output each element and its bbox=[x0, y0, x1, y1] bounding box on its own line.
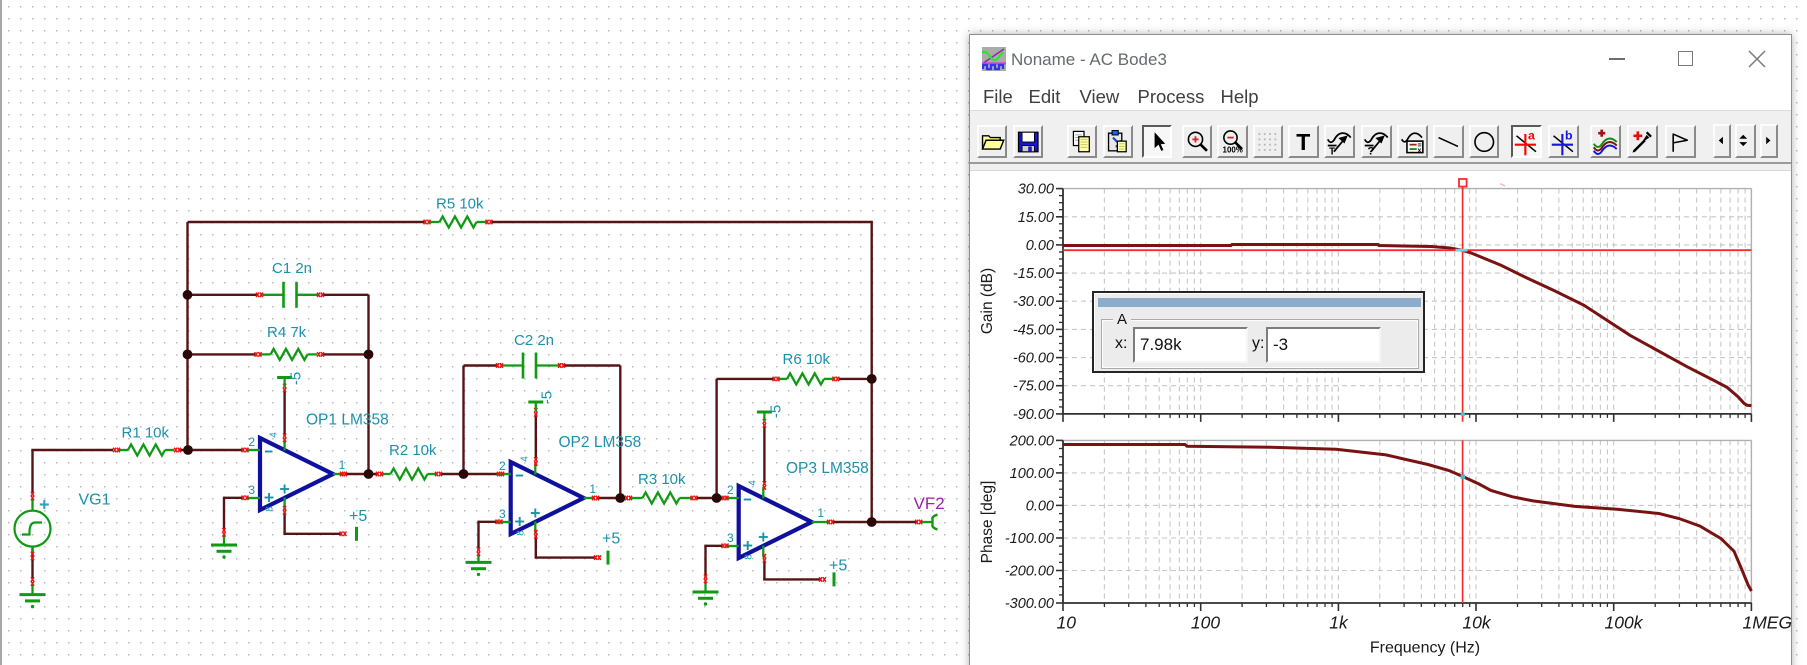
OP3 terminal crosses (inputs/output/supplies) bbox=[722, 496, 725, 501]
svg-text:-15.00: -15.00 bbox=[1013, 266, 1054, 282]
wire OP2 non-inverting input to ground bbox=[479, 521, 497, 523]
svg-text:OP3 LM358: OP3 LM358 bbox=[786, 460, 869, 477]
toolbar button zoom out 100% bbox=[1217, 125, 1248, 158]
svg-text:R6 10k: R6 10k bbox=[783, 351, 831, 368]
svg-text:+5: +5 bbox=[602, 531, 620, 548]
junction feedback column / C1 bbox=[183, 290, 193, 300]
op-amp OP1 output pin stub bbox=[333, 473, 344, 475]
ground below OP1 non-inverting input bbox=[223, 535, 225, 545]
svg-text:4: 4 bbox=[269, 432, 280, 438]
wire R1 to node N1 bbox=[180, 449, 242, 451]
op-amp OP3 body bbox=[739, 486, 812, 558]
wire VG1 to R1 bbox=[31, 449, 113, 451]
toolbar nav right arrow bbox=[1760, 124, 1778, 158]
wire OP2 output to R3 bbox=[598, 497, 625, 499]
wire R3 to node N5 bbox=[697, 497, 717, 499]
wire OP3 negative supply stem bbox=[763, 425, 765, 484]
svg-text:3: 3 bbox=[499, 507, 506, 521]
resistor R3 body bbox=[643, 493, 680, 504]
svg-text:10k: 10k bbox=[1462, 613, 1491, 633]
svg-text:-30.00: -30.00 bbox=[1013, 294, 1054, 310]
svg-text:R3 10k: R3 10k bbox=[638, 471, 686, 488]
toolbar button draw line bbox=[1433, 125, 1464, 158]
toolbar button show curves bbox=[1590, 125, 1621, 158]
gain curve bbox=[1063, 245, 1751, 406]
window close button bbox=[1748, 50, 1766, 68]
svg-text:8: 8 bbox=[743, 554, 754, 560]
node N3 junction (R2/C2/OP2-) bbox=[459, 469, 469, 479]
wire column D (C2 right corner down to OP2 output) bbox=[619, 366, 621, 499]
dialog y field bbox=[1266, 327, 1381, 363]
-5 supply rail above OP1 bbox=[277, 376, 292, 379]
resistor R6 body bbox=[787, 373, 824, 384]
cursor a vertical red line (gain plot) bbox=[1462, 187, 1464, 422]
wire OP1 positive supply stem and +5 run bbox=[283, 512, 285, 534]
wire C2 row left segment bbox=[464, 364, 499, 366]
capacitor C1 plates bbox=[282, 282, 285, 308]
wire C1 row left segment bbox=[188, 294, 259, 296]
op-amp OP2 input pin stubs bbox=[497, 473, 511, 475]
svg-text:VF2: VF2 bbox=[914, 494, 945, 513]
svg-text:R5 10k: R5 10k bbox=[436, 196, 484, 213]
wire VG1 top vertical bbox=[31, 450, 33, 494]
svg-text:1MEG: 1MEG bbox=[1743, 613, 1793, 633]
-5 supply rail above OP3 bbox=[757, 411, 772, 414]
wire OP3 output to VF2 pin bbox=[833, 521, 917, 523]
svg-text:2: 2 bbox=[499, 459, 506, 473]
toolbar button pick bbox=[1627, 125, 1658, 158]
toolbar button mark bbox=[1665, 125, 1696, 158]
op-amp OP1 inverting input marker bbox=[265, 451, 273, 453]
toolbar button save bbox=[1013, 125, 1044, 158]
svg-text:R4 7k: R4 7k bbox=[267, 324, 307, 341]
gain plot horizontal gridlines bbox=[1063, 216, 1751, 218]
wire R4 row right segment bbox=[323, 353, 369, 355]
svg-text:15.00: 15.00 bbox=[1018, 210, 1054, 226]
resistor R5 body bbox=[440, 217, 477, 228]
svg-text:-90.00: -90.00 bbox=[1013, 407, 1054, 423]
svg-text:-45.00: -45.00 bbox=[1013, 322, 1054, 338]
capacitor C1 terminal crosses bbox=[256, 293, 259, 298]
svg-text:R2 10k: R2 10k bbox=[389, 442, 437, 459]
svg-text:30.00: 30.00 bbox=[1018, 182, 1054, 198]
op-amp OP3 inverting input marker bbox=[744, 499, 752, 501]
junction column F / R6 bbox=[867, 374, 877, 384]
op-amp OP3 input pin stubs bbox=[725, 497, 739, 499]
toolbar button curve info bbox=[1361, 125, 1392, 158]
phase curve bbox=[1063, 445, 1751, 592]
dialog title drag bar bbox=[1098, 298, 1421, 307]
toolbar button open file bbox=[977, 125, 1008, 158]
op-amp OP2 non-inverting input marker bbox=[515, 521, 524, 523]
svg-text:R1 10k: R1 10k bbox=[122, 425, 170, 442]
plot area svg (abs coords via viewBox) bbox=[970, 35, 1792, 665]
op-amp OP2 supply pin stubs bbox=[534, 463, 536, 475]
cursor A dialog bbox=[1092, 291, 1425, 373]
wire column B lower (R4 row down to OP1 output node) bbox=[367, 354, 369, 474]
voltage source VG1 waveform symbol bbox=[22, 523, 42, 535]
svg-text:-5: -5 bbox=[767, 405, 784, 418]
svg-text:8: 8 bbox=[265, 506, 276, 512]
cursor a grab square marker bbox=[1459, 179, 1467, 187]
output voltage pin VF2 symbol bbox=[921, 521, 932, 523]
wire OP3 positive supply stem and +5 run bbox=[763, 560, 765, 579]
wire column E (R6 left corner down to node N5) bbox=[715, 379, 717, 498]
svg-text:3: 3 bbox=[727, 531, 734, 545]
op-amp OP1 body bbox=[260, 438, 333, 510]
svg-text:200.00: 200.00 bbox=[1009, 433, 1054, 449]
wire R6 row left segment bbox=[717, 378, 773, 380]
toolbar button cursor a (pressed) bbox=[1511, 125, 1542, 158]
toolbar nav left arrow bbox=[1713, 124, 1731, 158]
wire column B upper (C1 right corner down to R4 row) bbox=[367, 295, 369, 355]
wire C2 row right segment bbox=[563, 364, 620, 366]
resistor R6 terminal crosses bbox=[773, 377, 776, 382]
toolbar button draw circle bbox=[1469, 125, 1500, 158]
wire R2 to node N3 bbox=[441, 473, 464, 475]
capacitor C2 terminal crosses bbox=[496, 363, 499, 368]
wire column C (C2 left corner down to node N3) bbox=[462, 366, 464, 475]
op-amp OP2 inverting input marker bbox=[516, 475, 524, 477]
gain plot frame (top/right light) bbox=[1063, 188, 1751, 190]
toolbar button cursor b bbox=[1548, 125, 1579, 158]
node N4 junction (OP2 output/C2) bbox=[615, 493, 625, 503]
svg-text:0.00: 0.00 bbox=[1026, 498, 1054, 514]
gain plot axes (left/bottom dark) bbox=[1062, 189, 1064, 414]
svg-text:8: 8 bbox=[515, 530, 526, 536]
op-amp OP2 positive supply marker bbox=[531, 512, 540, 514]
op-amp OP1 positive supply marker bbox=[280, 488, 289, 490]
OP1 terminal crosses (inputs/output/supplies) bbox=[242, 448, 245, 453]
op-amp OP3 output pin stub bbox=[812, 521, 830, 523]
resistor R1 terminal crosses bbox=[113, 448, 116, 453]
svg-text:2: 2 bbox=[248, 435, 255, 449]
voltage source VG1 polarity plus bbox=[40, 503, 49, 505]
toolbar shadow line under buttons bbox=[970, 162, 1791, 164]
svg-text:-75.00: -75.00 bbox=[1013, 379, 1054, 395]
op-amp OP2 body bbox=[511, 462, 584, 534]
svg-text:+5: +5 bbox=[349, 508, 367, 525]
op-amp OP1 non-inverting input marker bbox=[265, 497, 274, 499]
ground below OP2 non-inverting input bbox=[477, 554, 479, 562]
svg-text:Frequency (Hz): Frequency (Hz) bbox=[1370, 640, 1480, 657]
svg-text:+5: +5 bbox=[829, 558, 847, 575]
resistor R1 body bbox=[128, 445, 165, 456]
wire OP1 non-inverting input to ground bbox=[224, 497, 242, 499]
op-amp OP3 non-inverting input marker bbox=[743, 545, 752, 547]
resistor R4 terminal crosses bbox=[255, 352, 258, 357]
wire R6 row right segment to column F bbox=[839, 378, 872, 380]
resistor R2 terminal crosses bbox=[376, 472, 379, 477]
svg-text:Phase [deg]: Phase [deg] bbox=[979, 481, 996, 564]
dialog x label bbox=[1115, 335, 1127, 353]
svg-text:4: 4 bbox=[747, 480, 758, 486]
wire R4 row left segment bbox=[188, 353, 256, 355]
toolbar button annotate curve bbox=[1324, 125, 1355, 158]
dialog x field bbox=[1133, 327, 1248, 363]
junction column B / R4 bbox=[364, 350, 374, 360]
svg-text:3: 3 bbox=[248, 483, 255, 497]
capacitor C2 plates bbox=[522, 353, 525, 379]
+5 supply rail right of OP3 bbox=[833, 572, 836, 586]
toolbar nav spinner bbox=[1735, 124, 1756, 158]
node N1 junction (R1/OP1- /feedback) bbox=[183, 445, 193, 455]
svg-text:100: 100 bbox=[1191, 613, 1220, 633]
AC Bode3 window bbox=[969, 34, 1792, 665]
wire OP3 non-inverting input to ground bbox=[706, 545, 723, 547]
wire R5 row left segment bbox=[188, 221, 425, 223]
svg-text:C2 2n: C2 2n bbox=[514, 332, 554, 349]
svg-text:-5: -5 bbox=[288, 372, 305, 385]
resistor R2 body bbox=[391, 469, 428, 480]
toolbar button legend bbox=[1397, 125, 1428, 158]
phase plot horizontal gridlines bbox=[1063, 472, 1751, 474]
-5 supply rail above OP2 bbox=[528, 401, 543, 404]
wire feedback column x=187 (R5/C1/R4 left column) bbox=[186, 222, 188, 450]
wire column F (R5 feedback down to OP3 output) bbox=[871, 221, 873, 522]
cursor a vertical red line (phase plot) bbox=[1462, 440, 1464, 603]
toolbar button copy bbox=[1067, 125, 1098, 158]
dialog y label bbox=[1252, 335, 1264, 353]
svg-text:-5: -5 bbox=[539, 391, 556, 404]
svg-text:0.00: 0.00 bbox=[1026, 238, 1054, 254]
phase plot axes (left/bottom dark) bbox=[1062, 440, 1064, 603]
svg-text:-300.00: -300.00 bbox=[1005, 596, 1054, 612]
node N2 junction (OP1 output) bbox=[364, 469, 374, 479]
wire OP1 output to R2 bbox=[345, 473, 377, 475]
wire node N3 to OP2 inverting input bbox=[464, 473, 499, 475]
node N5 junction (R3/R6/OP3-) bbox=[712, 493, 722, 503]
OP2 terminal crosses (inputs/output/supplies) bbox=[497, 472, 500, 477]
wire VG1 bottom to ground bbox=[31, 548, 33, 579]
toolbar button select cursor (pressed) bbox=[1142, 125, 1173, 158]
voltage source VG1 pin stubs bbox=[31, 500, 33, 511]
wire C1 row right segment bbox=[323, 294, 369, 296]
op-amp OP1 supply pin stubs bbox=[283, 439, 285, 451]
window maximize button bbox=[1678, 51, 1693, 66]
svg-text:OP2 LM358: OP2 LM358 bbox=[559, 434, 642, 451]
wire OP1 negative supply stem bbox=[283, 389, 285, 436]
junction feedback column / R4 bbox=[183, 350, 193, 360]
small red artifact mark bbox=[1500, 184, 1505, 187]
dialog group label A bbox=[1113, 311, 1131, 328]
+5 supply rail right of OP1 bbox=[355, 527, 358, 541]
op-amp OP3 positive supply marker bbox=[759, 536, 768, 538]
dialog group box A bbox=[1101, 319, 1419, 369]
ground below VG1 bbox=[31, 585, 33, 595]
svg-text:C1 2n: C1 2n bbox=[272, 260, 312, 277]
+5 supply rail right of OP2 bbox=[607, 551, 610, 565]
toolbar button grid (disabled) bbox=[1253, 125, 1284, 158]
svg-text:OP1 LM358: OP1 LM358 bbox=[306, 412, 389, 429]
voltage source VG1 terminal crosses bbox=[31, 492, 34, 497]
window title text bbox=[1011, 50, 1167, 70]
window minimize button bbox=[1609, 58, 1625, 60]
svg-text:100k: 100k bbox=[1605, 613, 1644, 633]
toolbar button paste bbox=[1103, 125, 1134, 158]
wire OP2 positive supply stem and +5 run bbox=[535, 536, 537, 558]
phase plot frame (top/right light) bbox=[1063, 439, 1751, 441]
svg-text:10: 10 bbox=[1057, 613, 1077, 633]
window title bar icon bbox=[982, 47, 1006, 71]
svg-text:-100.00: -100.00 bbox=[1005, 531, 1054, 547]
svg-text:4: 4 bbox=[519, 456, 530, 462]
toolbar button text bbox=[1288, 125, 1319, 158]
wire R5 row right segment to column F bbox=[492, 221, 872, 223]
svg-text:100.00: 100.00 bbox=[1010, 466, 1054, 482]
cursor a horizontal red line at -3dB bbox=[1063, 249, 1751, 251]
svg-text:1: 1 bbox=[589, 482, 596, 496]
wire node N5 to OP3 inverting input bbox=[717, 497, 722, 499]
op-amp OP2 output pin stub bbox=[584, 497, 595, 499]
op-amp OP3 supply pin stubs bbox=[762, 487, 764, 499]
svg-text:2: 2 bbox=[727, 483, 734, 497]
cursor cyan intersection marks bbox=[1456, 249, 1468, 252]
svg-text:-60.00: -60.00 bbox=[1013, 351, 1054, 367]
svg-text:1k: 1k bbox=[1329, 613, 1349, 633]
x-axis ticks (both plots) bbox=[1062, 414, 1064, 422]
schematic window left edge line bbox=[0, 0, 2, 665]
toolbar background bbox=[970, 110, 1791, 171]
node VF2 junction (OP3 output) bbox=[867, 517, 877, 527]
op-amp OP1 input pin stubs bbox=[246, 449, 260, 451]
wire OP2 negative supply stem bbox=[535, 414, 537, 460]
svg-text:-200.00: -200.00 bbox=[1005, 564, 1054, 580]
svg-text:VG1: VG1 bbox=[79, 492, 111, 509]
resistor R3 terminal crosses bbox=[625, 496, 628, 501]
svg-text:Gain (dB): Gain (dB) bbox=[979, 268, 996, 334]
ground below OP3 non-inverting input bbox=[704, 582, 706, 593]
voltage source VG1 circle bbox=[15, 511, 51, 547]
plot vertical log gridlines bbox=[1103, 189, 1105, 414]
svg-text:1: 1 bbox=[339, 458, 346, 472]
resistor R4 body bbox=[271, 349, 308, 360]
menu bar bbox=[970, 86, 1791, 110]
svg-text:1: 1 bbox=[817, 506, 824, 520]
toolbar button zoom in bbox=[1182, 125, 1213, 158]
resistor R5 terminal crosses bbox=[424, 220, 427, 225]
